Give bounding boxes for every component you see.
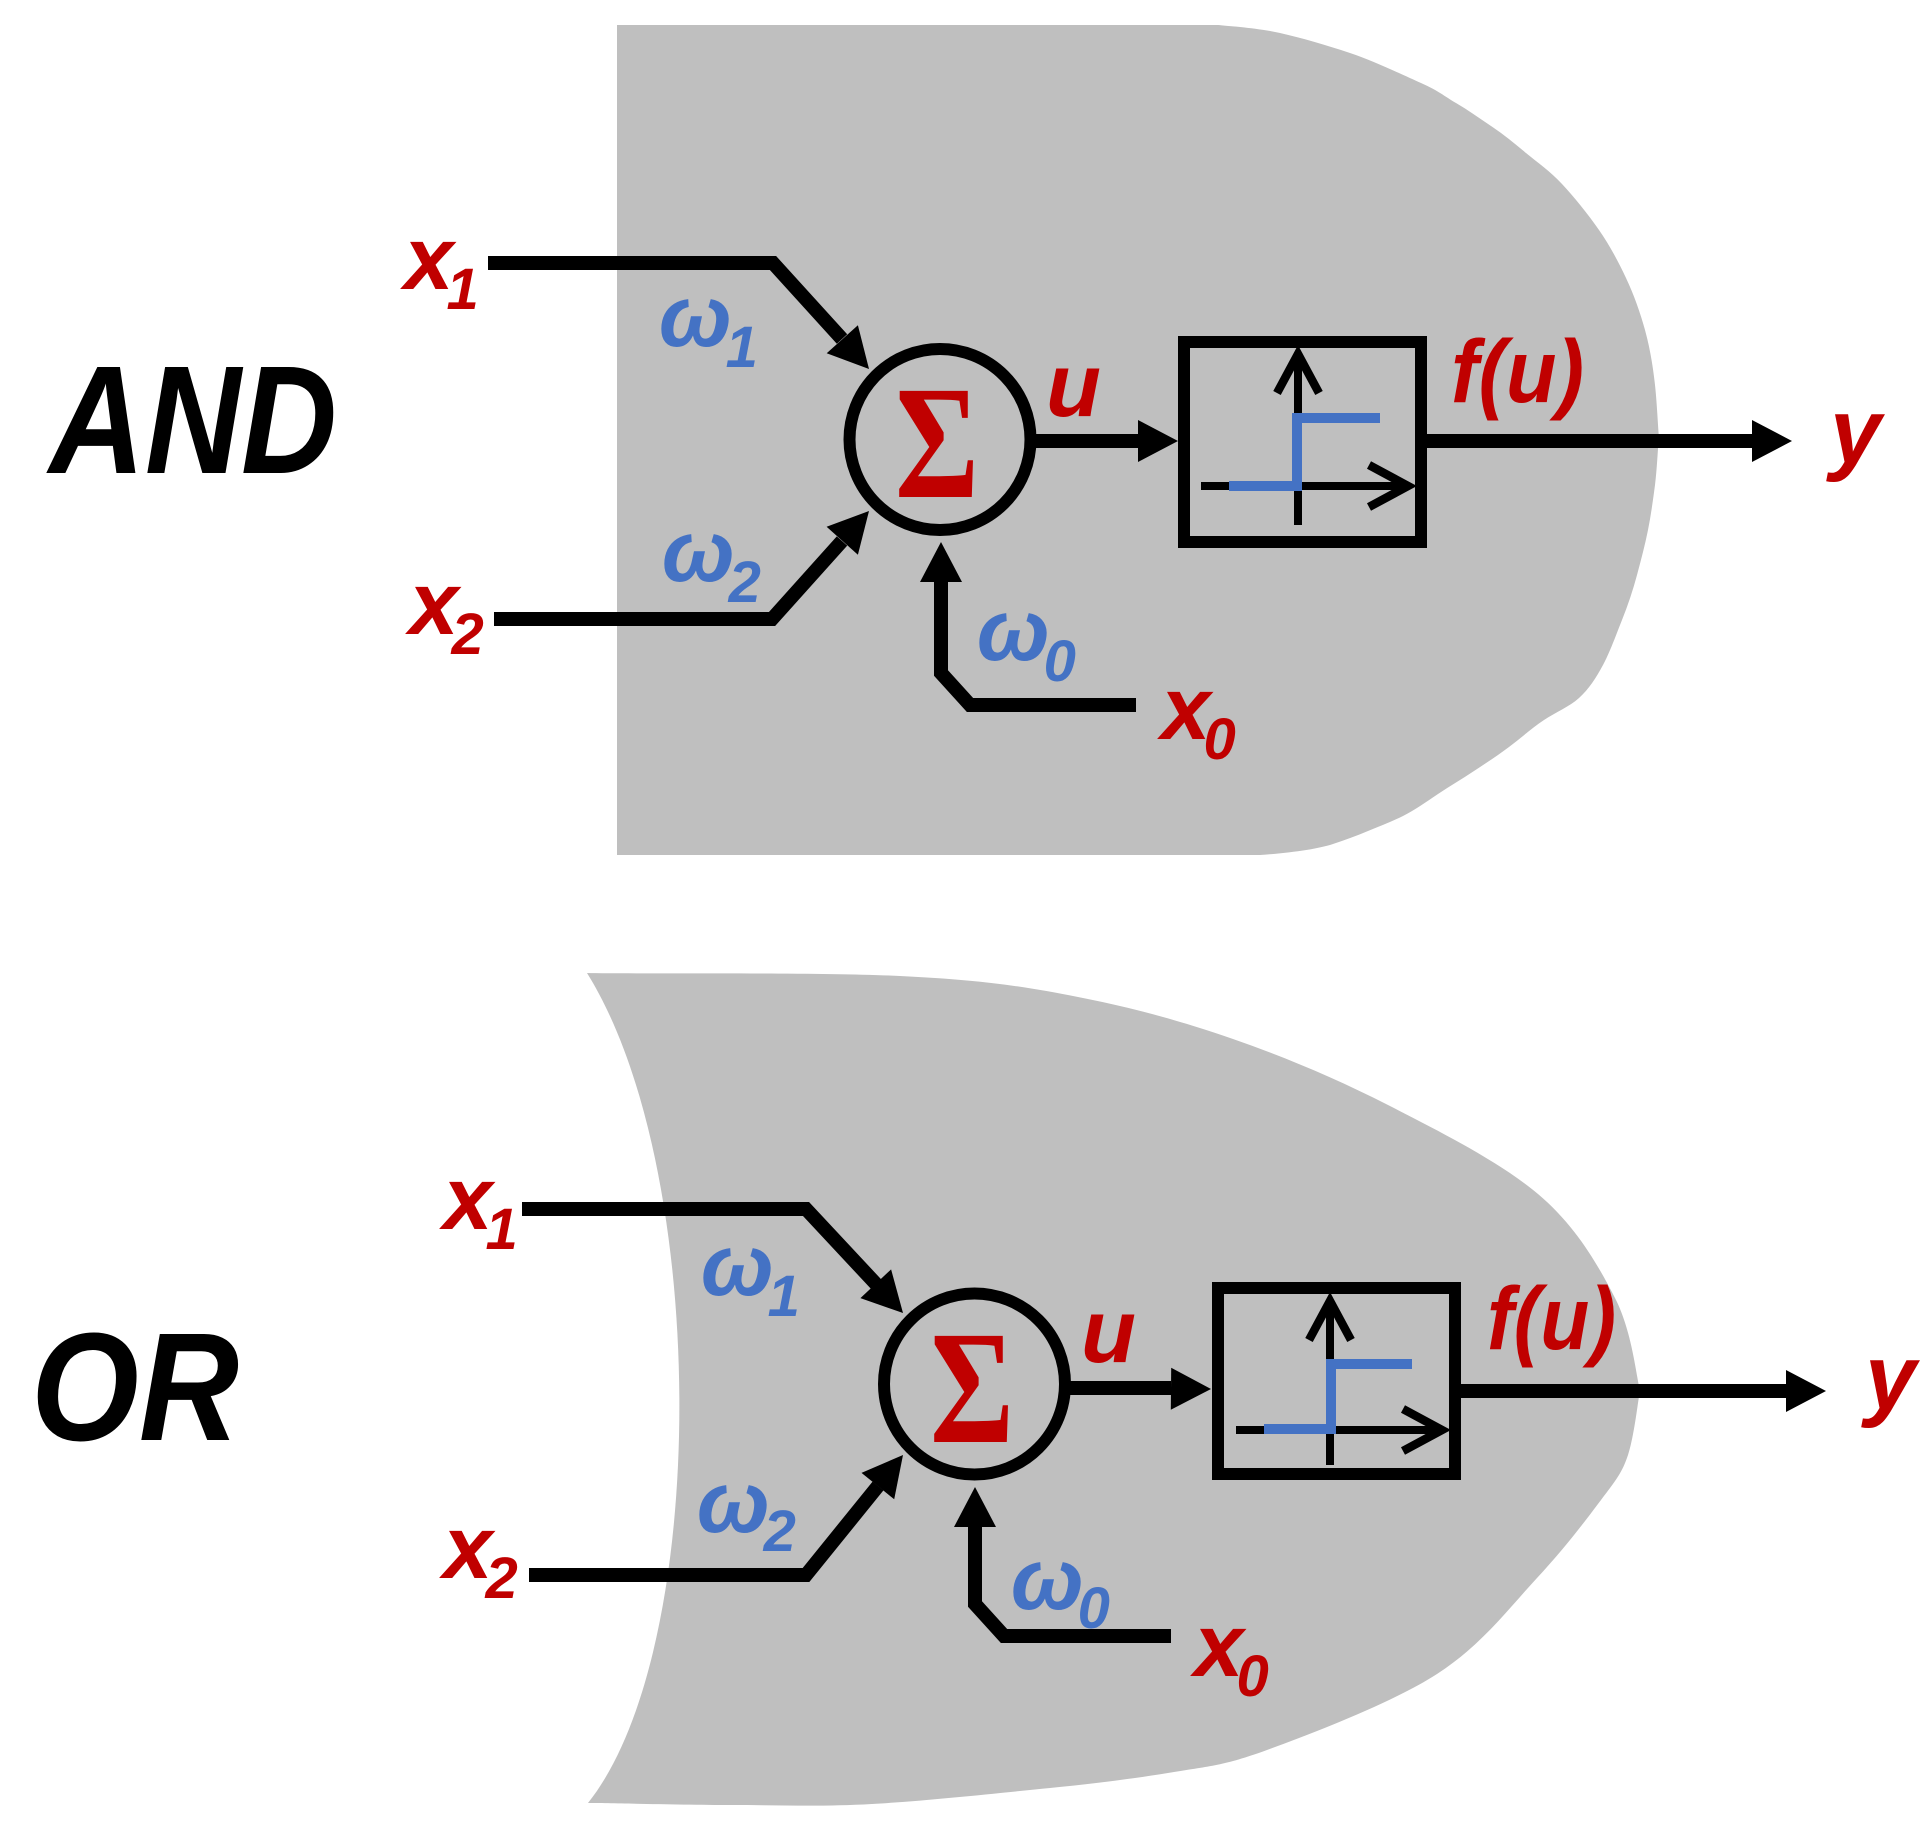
arrowhead u (OR)	[1171, 1368, 1211, 1410]
wire u (OR)	[1069, 1381, 1171, 1395]
wire x0	[941, 582, 1136, 705]
arrowhead y (OR)	[1786, 1370, 1826, 1412]
activation box	[1184, 342, 1421, 542]
box horizontal axis (OR)	[1236, 1426, 1440, 1434]
output wire (OR)	[1461, 1384, 1786, 1398]
svg-text:Σ: Σ	[895, 354, 979, 533]
svg-text:f(u): f(u)	[1451, 321, 1584, 421]
arrowhead x2 (OR)	[862, 1455, 904, 1499]
svg-text:y: y	[1861, 1327, 1920, 1429]
svg-text:AND: AND	[46, 334, 337, 506]
OR gate body	[587, 973, 1640, 1806]
wire x2 (OR)	[529, 1486, 878, 1575]
AND gate body	[617, 25, 1659, 855]
arrowhead u	[1138, 420, 1178, 462]
arrowhead y	[1752, 420, 1792, 462]
arrowhead x0 (OR)	[954, 1487, 996, 1527]
svg-text:Σ: Σ	[930, 1299, 1014, 1478]
box vertical axis (OR)	[1326, 1303, 1334, 1465]
wire x2	[494, 541, 842, 619]
svg-text:y: y	[1826, 381, 1885, 483]
wire x0 (OR)	[975, 1527, 1171, 1636]
step function curve	[1229, 418, 1380, 486]
arrowhead x2	[827, 511, 869, 555]
wire x1 (OR)	[522, 1209, 876, 1284]
svg-text:u: u	[1046, 336, 1101, 436]
box horizontal axis	[1201, 482, 1406, 490]
wire u	[1034, 434, 1138, 448]
arrowhead x1 (OR)	[860, 1269, 903, 1313]
activation box (OR)	[1218, 1288, 1455, 1474]
wire x1	[488, 263, 842, 339]
svg-text:u: u	[1081, 1282, 1136, 1382]
arrowhead x0	[920, 542, 962, 582]
box vertical axis	[1294, 356, 1302, 525]
output wire	[1427, 434, 1752, 448]
svg-text:OR: OR	[31, 1301, 239, 1473]
step function curve (OR)	[1264, 1364, 1412, 1429]
svg-text:f(u): f(u)	[1487, 1268, 1616, 1368]
arrowhead x1	[827, 325, 869, 369]
summation circle	[850, 349, 1031, 530]
summation circle (OR)	[884, 1294, 1065, 1475]
